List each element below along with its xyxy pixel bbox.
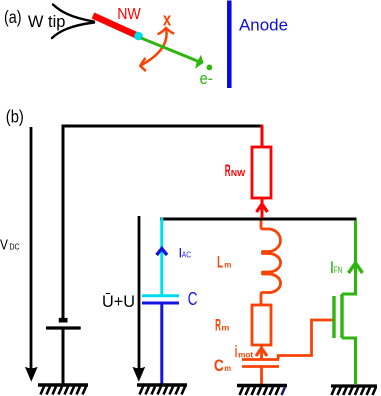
ground Cm	[237, 386, 287, 396]
imot arrow	[256, 348, 267, 356]
electron dot	[207, 65, 213, 71]
wire: top horizontal	[62, 125, 263, 128]
svg-text:e-: e-	[200, 69, 213, 88]
svg-text:m: m	[224, 260, 231, 269]
wire: Cm to ground	[260, 367, 263, 385]
resistor RNW	[252, 147, 271, 198]
inductor Lm	[261, 221, 281, 306]
capacitor Cm top plate	[242, 358, 279, 361]
anode plate	[227, 1, 232, 89]
svg-text:NW: NW	[231, 169, 246, 178]
transistor drain lead	[342, 293, 356, 296]
IFN arrow	[349, 263, 363, 273]
transistor source lead	[342, 338, 356, 384]
wire: red RNW bottom	[261, 198, 264, 218]
svg-text:x: x	[163, 9, 171, 29]
battery negative plate (long thin)	[46, 326, 81, 329]
svg-text:C: C	[214, 357, 224, 375]
wire: mid horizontal	[160, 218, 357, 221]
svg-text:AC: AC	[182, 250, 191, 259]
svg-text:W tip: W tip	[28, 13, 66, 31]
ground C branch	[137, 385, 187, 395]
gate wire (orange)	[278, 320, 332, 359]
wire: red RNW top	[261, 125, 264, 147]
electron trajectory arrow	[141, 38, 197, 61]
wire: left vertical lower (battery to ground)	[62, 329, 65, 384]
svg-text:R: R	[215, 317, 221, 335]
oscillation double arrow arc	[142, 29, 167, 66]
svg-text:(a): (a)	[4, 7, 22, 27]
wire: Rm to Cm	[260, 345, 263, 359]
svg-text:m: m	[221, 324, 229, 333]
ground right	[331, 386, 377, 395]
svg-text:i: i	[235, 342, 238, 361]
transistor gate bar	[332, 296, 335, 338]
svg-text:DC: DC	[9, 242, 19, 252]
wire: cyan AC branch	[160, 218, 163, 295]
svg-text:Ū+U: Ū+U	[102, 293, 135, 311]
wire: blue below capacitor	[160, 303, 163, 384]
svg-text:C: C	[188, 289, 198, 309]
tungsten tip profile upper curve	[53, 5, 94, 22]
capacitor C top plate (cyan)	[142, 294, 179, 297]
U annotation arrow	[138, 216, 141, 370]
capacitor C bottom plate (blue)	[142, 302, 179, 305]
ground left	[38, 385, 88, 395]
svg-text:NW: NW	[117, 6, 141, 23]
svg-text:m: m	[224, 364, 231, 373]
IAC arrow	[157, 249, 167, 255]
svg-text:mot: mot	[238, 350, 253, 359]
transistor channel bar	[340, 294, 343, 338]
svg-text:FN: FN	[334, 265, 343, 275]
VDC annotation arrow	[30, 127, 33, 370]
capacitor Cm bottom plate	[242, 365, 279, 368]
svg-text:R: R	[225, 162, 231, 180]
tungsten tip profile lower curve	[52, 23, 94, 39]
red current arrow	[257, 204, 268, 212]
nanowire NW rod	[93, 16, 137, 36]
svg-text:Anode: Anode	[239, 17, 288, 35]
NW tip cyan dot	[134, 32, 143, 41]
resistor Rm	[252, 305, 271, 345]
svg-text:(b): (b)	[6, 107, 24, 127]
wire: left vertical upper (to battery)	[62, 125, 65, 320]
svg-text:L: L	[217, 253, 223, 271]
svg-text:V: V	[0, 237, 8, 254]
wire: green vertical (anode current)	[354, 220, 357, 295]
battery positive plate (short thick)	[59, 318, 68, 323]
